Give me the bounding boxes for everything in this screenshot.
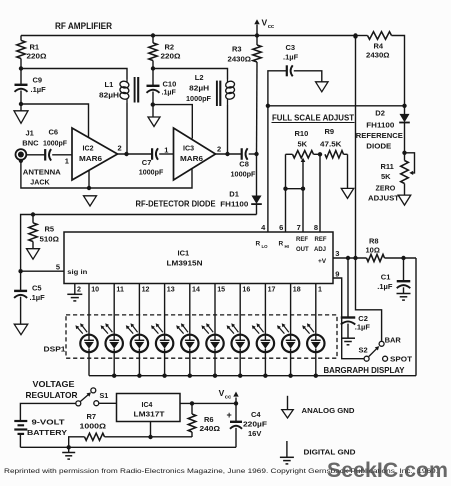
node refline - D2 bbox=[402, 104, 406, 108]
node LED7 anode bbox=[238, 374, 242, 378]
svg-text:DSP1: DSP1 bbox=[44, 347, 66, 354]
svg-text:+: + bbox=[227, 410, 232, 420]
svg-text:SeekIC.com: SeekIC.com bbox=[327, 459, 448, 482]
svg-text:2430Ω: 2430Ω bbox=[366, 51, 390, 60]
wire R8 to LED anode bus bbox=[415, 258, 417, 376]
resistor R4 bbox=[353, 32, 404, 106]
wire reference line bbox=[268, 105, 405, 107]
node pin3 - C2 bbox=[346, 256, 350, 260]
svg-text:R6: R6 bbox=[204, 415, 214, 424]
node LED6 anode bbox=[213, 374, 217, 378]
svg-text:cc: cc bbox=[268, 24, 275, 30]
wire top Vcc rail bbox=[21, 35, 356, 37]
capacitor C10 bbox=[147, 69, 177, 105]
resistor R5 bbox=[29, 215, 59, 249]
svg-text:JACK: JACK bbox=[30, 179, 50, 187]
svg-text:D2: D2 bbox=[375, 109, 385, 118]
svg-text:sig in: sig in bbox=[67, 269, 87, 276]
svg-text:R4: R4 bbox=[374, 41, 384, 50]
wire pin 4 rail (RLO) bbox=[261, 106, 268, 232]
svg-text:BNC: BNC bbox=[22, 139, 39, 148]
power Vcc at regulator output bbox=[219, 388, 239, 406]
svg-text:R11: R11 bbox=[381, 162, 394, 171]
svg-text:9-VOLT: 9-VOLT bbox=[32, 420, 66, 427]
svg-text:1000pF: 1000pF bbox=[139, 168, 164, 177]
svg-text:R7: R7 bbox=[87, 412, 97, 421]
node LED2 anode bbox=[112, 374, 116, 378]
svg-text:RF-DETECTOR DIODE: RF-DETECTOR DIODE bbox=[136, 199, 216, 208]
svg-text:C6: C6 bbox=[49, 128, 59, 137]
svg-text:LM317T: LM317T bbox=[134, 409, 166, 418]
node amp ground bbox=[87, 186, 91, 190]
ground C1 (digital) bbox=[397, 294, 411, 301]
svg-text:LM3915N: LM3915N bbox=[167, 258, 203, 267]
potentiometer R10 5K bbox=[286, 129, 321, 158]
ground regulator (digital) bbox=[62, 447, 75, 459]
svg-text:13: 13 bbox=[167, 286, 175, 294]
svg-text:C8: C8 bbox=[239, 160, 249, 169]
svg-text:5: 5 bbox=[56, 262, 60, 271]
svg-text:D1: D1 bbox=[229, 189, 239, 198]
svg-text:8: 8 bbox=[314, 223, 318, 232]
capacitor C9 bbox=[15, 69, 47, 105]
svg-text:47.5K: 47.5K bbox=[320, 140, 342, 149]
wire negative rail bbox=[20, 446, 236, 448]
svg-text:16V: 16V bbox=[248, 429, 261, 438]
svg-text:.1µF: .1µF bbox=[283, 52, 299, 61]
node D2 - R11 bbox=[402, 151, 406, 155]
LED DSP1-9 bbox=[277, 284, 299, 376]
svg-text:220Ω: 220Ω bbox=[27, 52, 47, 61]
wire S1 to IC4 input bbox=[99, 402, 116, 404]
connector J1 BNC bbox=[16, 129, 61, 187]
resistor R3 bbox=[228, 36, 262, 155]
resistor R9 47.5K bbox=[320, 127, 348, 188]
node R1-C9-L1 bbox=[19, 66, 23, 70]
svg-text:ADJUST: ADJUST bbox=[368, 195, 400, 203]
svg-text:OUT: OUT bbox=[296, 247, 309, 253]
LED DSP1-8 bbox=[252, 284, 274, 376]
wire pin 6 (RHI) bbox=[279, 154, 285, 232]
svg-text:.1µF: .1µF bbox=[377, 282, 393, 291]
svg-text:BATTERY: BATTERY bbox=[27, 430, 67, 437]
svg-text:.1µF: .1µF bbox=[162, 88, 177, 96]
svg-text:S1: S1 bbox=[100, 391, 109, 400]
node LED8 anode bbox=[263, 374, 267, 378]
display DSP1 dashed outline bbox=[44, 315, 338, 358]
svg-text:R3: R3 bbox=[232, 44, 242, 53]
node LED10 anode bbox=[314, 374, 318, 378]
svg-text:C4: C4 bbox=[251, 410, 261, 419]
wire C9 node to IC2 top edge bbox=[21, 104, 89, 137]
node sig - pin5 bbox=[18, 269, 22, 273]
wire pin 8 (REF ADJ) bbox=[314, 154, 320, 232]
ground amplifiers (analog) bbox=[84, 196, 97, 206]
node LED9 anode bbox=[288, 374, 292, 378]
svg-text:R1: R1 bbox=[30, 42, 40, 51]
node R10 left - pin6 bbox=[283, 187, 287, 191]
svg-text:1000pF: 1000pF bbox=[43, 139, 67, 148]
resistor R1 bbox=[17, 36, 47, 69]
watermark SeekIC.com bbox=[327, 459, 448, 482]
svg-text:2: 2 bbox=[77, 286, 81, 294]
label BARGRAPH DISPLAY bbox=[324, 366, 406, 375]
svg-text:REF: REF bbox=[296, 237, 308, 243]
wire pin 9 to S2 common bbox=[333, 269, 364, 358]
svg-text:REF: REF bbox=[315, 237, 327, 243]
svg-text:.1µF: .1µF bbox=[31, 85, 47, 94]
node LED3 anode bbox=[137, 374, 141, 378]
node pin3 - +V - S2 BAR bbox=[353, 256, 357, 260]
ground R9 (analog) bbox=[341, 188, 354, 198]
svg-text:DIGITAL GND: DIGITAL GND bbox=[304, 448, 357, 457]
svg-text:HI: HI bbox=[285, 244, 289, 249]
power Vcc top bbox=[254, 18, 275, 38]
wire +V rail bbox=[353, 34, 357, 258]
svg-text:FH1100: FH1100 bbox=[220, 199, 248, 208]
capacitor C3 bbox=[268, 43, 322, 106]
svg-text:R5: R5 bbox=[45, 225, 55, 234]
svg-text:+V: +V bbox=[318, 258, 327, 265]
wire +V to S2 BAR contact bbox=[356, 258, 382, 341]
label VOLTAGE REGULATOR bbox=[26, 380, 78, 400]
svg-text:REFERENCE: REFERENCE bbox=[356, 132, 403, 140]
svg-text:220Ω: 220Ω bbox=[161, 52, 181, 61]
svg-text:2: 2 bbox=[217, 145, 221, 154]
svg-text:IC3: IC3 bbox=[183, 144, 194, 152]
resistor R8 10ohm bbox=[366, 237, 417, 262]
resistor R7 1000ohm bbox=[69, 412, 192, 447]
svg-text:R2: R2 bbox=[165, 42, 175, 51]
svg-text:S2: S2 bbox=[359, 346, 368, 355]
svg-text:cc: cc bbox=[225, 394, 232, 400]
capacitor C1 bbox=[377, 258, 410, 293]
label FULL SCALE ADJUST bbox=[272, 113, 355, 123]
svg-text:2430Ω: 2430Ω bbox=[228, 54, 252, 63]
svg-text:R: R bbox=[256, 241, 261, 248]
svg-text:14: 14 bbox=[192, 286, 200, 294]
node R7 - ground rail bbox=[67, 445, 71, 449]
inductor L2 bbox=[186, 73, 235, 154]
svg-text:82µH: 82µH bbox=[99, 91, 119, 100]
svg-text:10: 10 bbox=[91, 286, 99, 294]
node IC4 out - R6 bbox=[190, 401, 194, 405]
node R10-R9-pin8 bbox=[318, 152, 322, 156]
wire R1 junction to L1 top bbox=[21, 69, 127, 80]
regulator IC4 LM317T bbox=[117, 394, 181, 422]
svg-text:10Ω: 10Ω bbox=[366, 245, 380, 254]
switch S2 BAR/SPOT bbox=[359, 336, 413, 364]
wire sig to pin 5 bbox=[21, 262, 64, 271]
resistor R6 240ohm bbox=[188, 403, 220, 437]
svg-text:5K: 5K bbox=[381, 172, 391, 181]
svg-text:ANALOG GND: ANALOG GND bbox=[302, 406, 356, 415]
svg-text:R10: R10 bbox=[295, 129, 309, 138]
node IC3 out / L2 bbox=[225, 152, 229, 156]
ground legend analog bbox=[282, 396, 355, 418]
wire LED anode bus bbox=[89, 375, 416, 377]
diode D1 FH1100 bbox=[220, 154, 261, 215]
svg-text:RF AMPLIFIER: RF AMPLIFIER bbox=[55, 21, 112, 31]
LED DSP1-3 bbox=[126, 284, 148, 376]
svg-text:3: 3 bbox=[335, 249, 339, 258]
ground C5 (analog) bbox=[14, 324, 28, 335]
svg-text:18: 18 bbox=[293, 286, 301, 294]
svg-text:V: V bbox=[219, 388, 225, 398]
wire IC3 out bbox=[216, 153, 242, 155]
svg-text:L1: L1 bbox=[105, 80, 114, 89]
LED DSP1-4 bbox=[151, 284, 173, 376]
svg-text:C10: C10 bbox=[163, 80, 177, 89]
wire detector output (sig) bbox=[21, 215, 257, 272]
ground R11 (analog) bbox=[398, 195, 411, 205]
wire C10 node to IC3 top edge bbox=[153, 105, 193, 139]
LED DSP1-5 bbox=[176, 284, 198, 376]
LED DSP1-1 bbox=[75, 284, 97, 376]
ground legend digital bbox=[280, 441, 356, 464]
svg-text:C7: C7 bbox=[142, 158, 152, 167]
capacitor C7 bbox=[139, 148, 174, 176]
svg-text:1: 1 bbox=[164, 145, 168, 154]
svg-text:C5: C5 bbox=[32, 284, 42, 293]
battery 9-volt bbox=[14, 403, 75, 447]
capacitor C5 bbox=[14, 271, 45, 324]
svg-text:C3: C3 bbox=[286, 43, 296, 52]
node C9 bottom bbox=[19, 102, 23, 106]
svg-text:VOLTAGE: VOLTAGE bbox=[33, 380, 76, 389]
IC U1 LM3915N box bbox=[64, 232, 333, 284]
ground pin 2 (digital) bbox=[67, 294, 82, 301]
svg-text:.1µF: .1µF bbox=[355, 322, 371, 331]
svg-text:FH1100: FH1100 bbox=[366, 120, 394, 129]
svg-text:LO: LO bbox=[262, 244, 269, 249]
capacitor C6 bbox=[27, 128, 73, 161]
svg-text:12: 12 bbox=[142, 286, 150, 294]
LED DSP1-2 bbox=[101, 284, 123, 376]
svg-text:L2: L2 bbox=[195, 73, 204, 82]
node R10 wiper - pin7 bbox=[301, 187, 305, 191]
svg-text:DIODE: DIODE bbox=[366, 142, 391, 150]
svg-text:C1: C1 bbox=[381, 272, 391, 281]
svg-text:15: 15 bbox=[217, 286, 225, 294]
ground R5 (analog) bbox=[27, 249, 40, 260]
capacitor C4 220uF bbox=[227, 403, 268, 447]
svg-text:220µF: 220µF bbox=[243, 420, 267, 429]
svg-text:ANTENNA: ANTENNA bbox=[23, 169, 61, 177]
svg-text:9: 9 bbox=[335, 269, 339, 278]
caption reprint notice bbox=[4, 469, 438, 475]
svg-text:510Ω: 510Ω bbox=[40, 234, 60, 243]
svg-text:REGULATOR: REGULATOR bbox=[26, 391, 78, 400]
svg-text:17: 17 bbox=[268, 286, 276, 294]
diode D2 FH1100 bbox=[356, 106, 410, 153]
amplifier IC3 MAR6 bbox=[164, 128, 221, 180]
svg-text:MAR6: MAR6 bbox=[79, 154, 102, 163]
svg-text:IC4: IC4 bbox=[142, 402, 153, 409]
capacitor C8 bbox=[231, 148, 257, 178]
ground C10 (analog) bbox=[148, 105, 160, 127]
node R2-C10-L2 bbox=[151, 66, 155, 70]
svg-text:1: 1 bbox=[65, 157, 69, 166]
potentiometer R11 5K zero adjust bbox=[368, 153, 415, 203]
svg-text:7: 7 bbox=[297, 223, 301, 232]
node LED5 anode bbox=[188, 374, 192, 378]
IC1 bottom pin numbers bbox=[77, 286, 322, 294]
svg-text:.1µF: .1µF bbox=[30, 293, 46, 302]
node pin4 rail - C3 bbox=[266, 104, 270, 108]
svg-text:BARGRAPH DISPLAY: BARGRAPH DISPLAY bbox=[324, 366, 406, 375]
svg-text:J1: J1 bbox=[26, 129, 34, 138]
svg-text:BAR: BAR bbox=[385, 336, 402, 345]
svg-text:11: 11 bbox=[116, 286, 124, 294]
wire amplifier ground bus bbox=[21, 161, 192, 188]
wire pin 2 bbox=[74, 284, 76, 294]
ground C3 (analog) bbox=[316, 82, 329, 92]
svg-text:R: R bbox=[279, 241, 284, 248]
wire pin 3 bbox=[333, 249, 367, 258]
svg-text:5K: 5K bbox=[298, 140, 308, 149]
wire pin 7 (REF OUT) with R10 wiper arrow bbox=[297, 158, 306, 233]
node C10 bottom bbox=[151, 102, 155, 106]
svg-text:240Ω: 240Ω bbox=[200, 424, 221, 433]
node LED4 anode bbox=[162, 374, 166, 378]
svg-text:1: 1 bbox=[318, 286, 322, 294]
LED DSP1-6 bbox=[201, 284, 223, 376]
label RF-DETECTOR DIODE bbox=[136, 199, 216, 208]
wire IC2 ground drop bbox=[88, 170, 90, 188]
svg-text:MAR6: MAR6 bbox=[180, 154, 203, 163]
node C8 - R3 - D1 bbox=[254, 152, 258, 156]
amplifier IC2 MAR6 bbox=[65, 128, 122, 180]
svg-text:1000Ω: 1000Ω bbox=[80, 422, 107, 431]
svg-text:IC2: IC2 bbox=[83, 144, 94, 152]
svg-text:ADJ: ADJ bbox=[314, 247, 326, 253]
IC1 pin names top bbox=[256, 237, 327, 265]
svg-text:ZERO: ZERO bbox=[376, 184, 396, 192]
svg-text:1000pF: 1000pF bbox=[186, 94, 211, 103]
svg-text:SPOT: SPOT bbox=[390, 355, 412, 364]
switch S1 bbox=[76, 388, 108, 406]
inductor L1 bbox=[99, 77, 138, 154]
svg-text:82µH: 82µH bbox=[189, 84, 209, 93]
LED DSP1-10 bbox=[302, 284, 324, 376]
svg-text:16: 16 bbox=[242, 286, 250, 294]
wire R2 junction to L2 top bbox=[153, 69, 228, 80]
svg-text:FULL SCALE ADJUST: FULL SCALE ADJUST bbox=[272, 113, 355, 123]
node ADJ - R7 - R6 bbox=[148, 435, 152, 439]
capacitor C2 bbox=[341, 258, 371, 338]
wire IC2 out bbox=[118, 153, 152, 155]
node R8 - C1 bbox=[401, 256, 405, 260]
svg-text:IC1: IC1 bbox=[178, 248, 190, 257]
svg-text:2: 2 bbox=[118, 144, 122, 153]
LED DSP1-7 bbox=[227, 284, 249, 376]
ground C2 (digital) bbox=[341, 338, 355, 345]
svg-text:6: 6 bbox=[279, 223, 283, 232]
node IC2 out / L1 bbox=[124, 152, 128, 156]
svg-text:C9: C9 bbox=[33, 76, 43, 85]
resistor R2 bbox=[149, 33, 181, 68]
svg-text:R8: R8 bbox=[369, 237, 379, 246]
wire IC4 ADJ pin bbox=[150, 422, 152, 438]
svg-text:R9: R9 bbox=[325, 127, 335, 136]
node sig - R5 bbox=[31, 212, 35, 216]
wire R10 left to wiper tie bbox=[286, 188, 304, 190]
label RF AMPLIFIER bbox=[55, 21, 112, 31]
ground C9 (analog) bbox=[14, 104, 28, 123]
wire IC4 out bbox=[180, 402, 236, 404]
svg-text:1000pF: 1000pF bbox=[231, 169, 256, 178]
svg-text:V: V bbox=[262, 18, 268, 28]
